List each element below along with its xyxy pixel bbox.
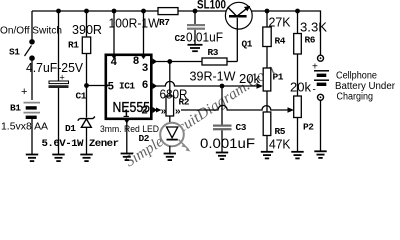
wire pin5 (87, 85, 105, 87)
ground under C3 (216, 153, 228, 160)
terminal + of cellphone battery (318, 55, 324, 61)
switch S1 (25, 11, 35, 100)
svg-text:47K: 47K (269, 137, 291, 152)
transistor Q1 (225, 2, 252, 61)
op-amp U1 : IC1 NE555 box (105, 55, 158, 124)
node pin8 rail junction (141, 9, 146, 14)
ground under C1 (52, 155, 64, 162)
svg-text:6: 6 (142, 80, 148, 92)
svg-text:SL100: SL100 (197, 0, 226, 12)
wire pin4 (113, 11, 115, 54)
terminal - of cellphone battery (318, 94, 324, 151)
node pin4 rail junction (112, 9, 117, 14)
ground under D2 (164, 154, 176, 161)
svg-text:D2: D2 (139, 133, 150, 144)
svg-text:R6: R6 (305, 35, 316, 46)
wire top rail right segment (252, 11, 321, 55)
node R1 rail junction (84, 9, 89, 14)
resistor R6 (294, 11, 302, 96)
svg-text:4.7uF-25V: 4.7uF-25V (26, 61, 84, 75)
svg-text:On/Off Switch: On/Off Switch (0, 26, 62, 37)
ground under B1 (26, 155, 38, 162)
watermark (122, 61, 278, 170)
svg-text:8: 8 (133, 56, 140, 68)
ground under C2 (188, 45, 203, 51)
potentiometer P1 (263, 68, 271, 112)
label Cellphone Battery Under Charging (335, 71, 396, 103)
svg-text:R1: R1 (68, 40, 79, 51)
resistor R2 (166, 96, 174, 116)
svg-text:R7: R7 (159, 17, 170, 28)
svg-text:D1: D1 (65, 123, 76, 134)
node R6 rail junction (295, 9, 300, 14)
svg-text:P1: P1 (273, 72, 284, 83)
svg-text:C2: C2 (175, 33, 186, 44)
node C2 rail junction (193, 9, 198, 14)
svg-text:C3: C3 (236, 122, 247, 133)
svg-text:B1: B1 (10, 103, 21, 114)
svg-text:Cellphone: Cellphone (336, 71, 377, 82)
ground under cellphone battery (314, 151, 326, 158)
resistor R5 (263, 112, 271, 152)
svg-text:»: » (161, 107, 167, 118)
svg-text:4: 4 (111, 57, 118, 69)
svg-text:-: - (313, 85, 316, 96)
svg-text:39R-1W: 39R-1W (190, 70, 236, 84)
svg-text:C1: C1 (76, 91, 87, 102)
node pin6 C3 junction (220, 84, 225, 89)
wire pin3 (153, 61, 202, 63)
svg-text:0.001uF: 0.001uF (200, 136, 255, 151)
wire pin1 to ground (126, 119, 128, 154)
capacitor C3 (213, 125, 232, 153)
wire pin2 with hops over C3 and R5 columns (153, 105, 294, 117)
svg-text:20k: 20k (290, 80, 311, 95)
svg-text:IC1: IC1 (119, 80, 135, 91)
ground under pin1 (121, 154, 133, 161)
svg-text:S1: S1 (9, 47, 20, 58)
svg-text:Charging: Charging (337, 92, 374, 103)
LED D2 (160, 116, 190, 154)
battery B1 (21, 86, 40, 155)
svg-text:NE555: NE555 (113, 99, 151, 116)
ground under P2 (291, 152, 303, 159)
resistor R2 column wire (169, 62, 171, 97)
svg-text:3mm. Red LED: 3mm. Red LED (100, 124, 159, 135)
resistor R1 (82, 11, 90, 118)
node R4 rail junction (265, 9, 270, 14)
svg-text:3: 3 (142, 63, 149, 75)
svg-text:0.01uF: 0.01uF (186, 31, 223, 45)
svg-text:27K: 27K (269, 15, 291, 30)
capacitor C3 column wire (221, 86, 223, 125)
resistor R3 (202, 58, 237, 65)
svg-text:Q1: Q1 (242, 39, 253, 50)
wire top rail middle segment (178, 10, 227, 12)
svg-text:390R: 390R (72, 23, 102, 37)
svg-text:20k: 20k (239, 71, 260, 86)
resistor R4 (263, 11, 271, 68)
svg-text:R3: R3 (208, 47, 219, 58)
wire C1 column (58, 11, 60, 81)
svg-text:3.3K: 3.3K (300, 20, 327, 35)
svg-text:5: 5 (108, 82, 115, 94)
resistor R7 (158, 8, 178, 15)
zener diode D1 (78, 117, 95, 155)
svg-text:5.6V-1W Zener: 5.6V-1W Zener (42, 139, 120, 150)
wiper arrow into P1 (257, 83, 264, 89)
svg-text:R5: R5 (275, 126, 286, 137)
svg-text:R4: R4 (275, 36, 286, 47)
svg-text:1.5vx8 AA: 1.5vx8 AA (1, 121, 48, 133)
cellphone battery under charging (312, 62, 329, 96)
capacitor C1 (49, 73, 69, 155)
ground under R5 (261, 152, 273, 159)
node C1 rail junction (56, 9, 61, 14)
svg-text:+: + (21, 86, 27, 98)
potentiometer P2 (294, 96, 302, 152)
node pin3 R2 junction (167, 59, 172, 64)
svg-text:Battery Under: Battery Under (335, 81, 396, 92)
svg-text:100R-1W: 100R-1W (109, 17, 160, 31)
wire pin8 (143, 11, 145, 54)
wire top rail left segment (32, 10, 158, 12)
capacitor C2 (187, 11, 205, 45)
node R1 D1 pin5 junction (84, 83, 89, 88)
svg-text:»: » (175, 107, 181, 118)
svg-text:P2: P2 (303, 122, 314, 133)
wire pin6 with hop over R2 column (153, 81, 258, 86)
ground under D1 (80, 155, 92, 162)
